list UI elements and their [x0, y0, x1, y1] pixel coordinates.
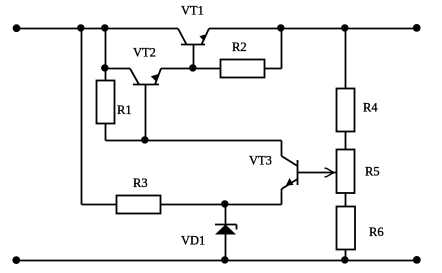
- svg-text:R1: R1: [117, 103, 132, 117]
- svg-text:R3: R3: [133, 176, 148, 190]
- svg-text:R2: R2: [232, 40, 247, 54]
- svg-text:R5: R5: [365, 165, 380, 179]
- svg-text:VT1: VT1: [181, 4, 204, 18]
- svg-text:R6: R6: [369, 225, 384, 239]
- svg-text:R4: R4: [363, 101, 378, 115]
- svg-text:VD1: VD1: [181, 234, 205, 248]
- svg-text:VT3: VT3: [249, 154, 272, 168]
- svg-text:VT2: VT2: [133, 46, 156, 60]
